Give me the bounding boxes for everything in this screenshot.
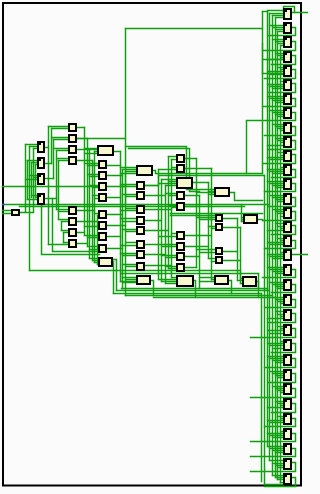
wire: [270, 345, 284, 347]
output wrap net: [265, 241, 296, 249]
bus line: [120, 152, 122, 282]
wire: [42, 204, 100, 255]
wire: [34, 177, 39, 179]
wire: [273, 284, 284, 286]
output wrap net: [269, 84, 296, 93]
wire: [172, 167, 178, 169]
subcircuit U83: [177, 192, 184, 199]
wire: [281, 341, 284, 343]
bus line: [58, 161, 60, 220]
input port net A: [3, 186, 100, 188]
wire: [281, 57, 284, 59]
wire: [98, 224, 100, 226]
wire: [273, 463, 284, 465]
wire: [270, 333, 284, 335]
subcircuit U33: [284, 474, 291, 484]
wire: [98, 215, 100, 217]
subcircuit U43: [38, 174, 44, 184]
wire: [276, 138, 284, 140]
wire: [159, 236, 178, 238]
wire: [172, 159, 178, 161]
wire: [145, 195, 166, 197]
wire: [185, 267, 197, 269]
bus line: [29, 147, 31, 271]
subcircuit U69: [99, 258, 112, 266]
wire: [278, 140, 284, 142]
wire: [90, 149, 98, 151]
wire: [212, 228, 216, 230]
wire: [281, 240, 284, 242]
subcircuit U82: [177, 178, 192, 188]
wire: [169, 268, 178, 270]
wire: [77, 232, 85, 234]
bundle net 5: [154, 297, 276, 299]
wire: [281, 45, 284, 47]
wire: [276, 375, 284, 377]
wire: [88, 165, 100, 167]
wire: [54, 148, 70, 150]
wire: [270, 159, 284, 161]
wire: [241, 283, 244, 285]
wire: [281, 167, 284, 169]
wire: [263, 59, 284, 61]
wire: [281, 81, 284, 83]
wire: [276, 41, 284, 43]
wire: [53, 199, 98, 252]
wire: [278, 288, 284, 290]
wire: [77, 160, 93, 162]
over-top hook net: [284, 7, 295, 13]
wire: [273, 88, 284, 90]
subcircuit U50: [69, 124, 76, 131]
subcircuit U75: [137, 227, 144, 234]
wire: [145, 265, 172, 267]
bus line: [56, 151, 58, 210]
wire: [57, 158, 70, 160]
wire: [278, 377, 284, 379]
wire: [281, 303, 284, 305]
wire: [77, 149, 90, 151]
wire: [200, 219, 216, 221]
subcircuit U72: [137, 192, 144, 199]
output wrap net: [265, 419, 296, 427]
wire: [276, 465, 284, 467]
wire: [273, 360, 284, 362]
subcircuit U3: [284, 37, 291, 47]
subcircuit U79: [137, 276, 150, 284]
feeder net: [246, 122, 248, 174]
wire: [126, 208, 138, 210]
wire: [85, 153, 98, 155]
wire: [263, 73, 284, 75]
wire: [85, 148, 98, 150]
wire: [93, 187, 100, 189]
bus line: [208, 183, 210, 259]
wire: [270, 448, 284, 450]
wire: [172, 233, 178, 235]
wire: [166, 266, 178, 268]
subcircuit U12: [284, 165, 291, 175]
subcircuit U53: [69, 157, 76, 164]
wire: [145, 220, 162, 222]
wire: [268, 96, 284, 98]
wire: [278, 152, 284, 154]
wire: [98, 264, 100, 266]
wire: [57, 150, 70, 152]
subcircuit U55: [69, 218, 76, 225]
wire: [126, 242, 138, 244]
wire: [52, 137, 70, 139]
output wrap net: [251, 434, 296, 442]
output wrap net: [265, 300, 296, 308]
pair net 1: [152, 171, 263, 174]
subcircuit U29: [284, 414, 291, 424]
output wrap net: [263, 99, 296, 107]
bus line: [87, 139, 89, 247]
subcircuit U74: [137, 217, 144, 224]
output wrap net: [272, 170, 296, 178]
band line 3: [171, 213, 263, 215]
bus line: [27, 161, 29, 200]
wire: [270, 256, 284, 258]
subcircuit U15: [284, 208, 291, 218]
wire: [268, 267, 284, 269]
input port net C: [3, 210, 12, 212]
wire: [93, 260, 100, 262]
wire: [270, 183, 284, 185]
subcircuit U14: [284, 194, 291, 204]
wire: [278, 43, 284, 45]
subcircuit U63: [99, 183, 106, 190]
wire: [268, 84, 284, 86]
wire: [270, 422, 284, 424]
subcircuit U85: [177, 232, 184, 239]
wire: [121, 281, 138, 283]
subcircuit U77: [137, 251, 144, 258]
wire: [276, 388, 284, 390]
output wrap net: [265, 359, 296, 368]
wire: [281, 155, 284, 157]
wire: [145, 244, 159, 246]
output wrap net: [272, 404, 296, 413]
wire: [200, 277, 215, 279]
M5 output: [258, 219, 263, 221]
wire: [121, 167, 137, 169]
wire: [273, 386, 284, 388]
bus line: [97, 216, 99, 265]
bus line: [51, 129, 53, 164]
wire: [212, 279, 215, 281]
wire: [276, 53, 284, 55]
subcircuit U28: [284, 399, 291, 409]
subcircuit U70: [137, 166, 152, 175]
output wrap net: [251, 329, 296, 338]
subcircuit U24: [284, 340, 291, 350]
wire: [278, 201, 284, 203]
wire: [121, 184, 138, 186]
subcircuit U94: [216, 257, 222, 263]
wire: [107, 186, 126, 188]
wire: [192, 182, 209, 184]
wire: [270, 435, 284, 437]
wire: [166, 185, 177, 187]
bus line: [25, 145, 27, 212]
wire: [278, 128, 284, 130]
wire: [270, 358, 284, 360]
bus line: [122, 170, 124, 289]
subcircuit U66: [99, 222, 106, 229]
M4b output: [229, 281, 232, 294]
wire: [278, 314, 284, 316]
wire: [263, 11, 268, 13]
right bus f: [275, 18, 277, 478]
subcircuit U52: [69, 146, 76, 153]
subcircuit U90: [215, 188, 229, 196]
subcircuit U19: [284, 265, 291, 275]
wire: [276, 299, 284, 301]
M5b output: [257, 282, 259, 298]
subcircuit U73: [137, 206, 144, 213]
output wrap net: [272, 56, 296, 65]
wire: [90, 258, 100, 260]
wire: [270, 86, 284, 88]
wire: [281, 142, 284, 144]
subcircuit U86: [177, 243, 184, 250]
wire: [123, 194, 138, 196]
wire: [185, 206, 197, 208]
subcircuit U78: [137, 263, 144, 270]
wire: [162, 179, 177, 181]
wire: [26, 144, 39, 146]
wire: [278, 467, 284, 469]
wire: [276, 29, 284, 31]
bus line: [171, 160, 173, 278]
wire: [107, 165, 121, 167]
wire: [273, 39, 284, 41]
wire: [172, 277, 177, 279]
wire: [281, 431, 284, 433]
wire: [268, 254, 284, 256]
wire: [197, 192, 215, 194]
wire: [281, 216, 284, 218]
bus line: [211, 169, 213, 280]
output wrap net: [269, 374, 296, 383]
wire: [145, 254, 166, 256]
subcircuit U21: [284, 295, 291, 305]
wire: [59, 211, 70, 213]
wire: [200, 252, 216, 254]
subcircuit U84: [177, 203, 184, 210]
subcircuit U67: [99, 233, 106, 240]
wire: [49, 126, 70, 128]
output wrap net: [265, 70, 296, 79]
wire: [32, 195, 39, 197]
subcircuit U76: [137, 241, 144, 248]
wire: [270, 244, 284, 246]
wire: [278, 416, 284, 418]
wire: [54, 139, 70, 141]
wire: [273, 209, 284, 211]
wire: [238, 280, 244, 282]
bundle net 4: [126, 295, 273, 297]
wire: [281, 328, 284, 330]
subcircuit U62: [99, 172, 106, 179]
subcircuit U54: [69, 207, 76, 214]
wire: [45, 178, 54, 180]
bus line: [161, 180, 163, 282]
wire: [107, 197, 121, 199]
wire: [200, 281, 215, 283]
subcircuit U80: [177, 155, 184, 162]
wire: [113, 151, 121, 153]
wire: [34, 148, 39, 150]
output wrap net: [269, 28, 296, 36]
wire: [85, 235, 100, 237]
bus line: [158, 170, 160, 280]
wire: [62, 230, 70, 232]
wire: [107, 248, 123, 250]
wire: [281, 130, 284, 132]
wire: [270, 282, 284, 284]
output wrap net: [269, 198, 296, 207]
wire: [121, 210, 138, 212]
subcircuit U44: [38, 194, 44, 204]
subcircuit U11: [284, 151, 291, 161]
wire: [273, 258, 284, 260]
output wrap net: [247, 113, 296, 121]
right bus b: [265, 176, 284, 485]
output wrap net: [263, 212, 296, 221]
right bus g: [277, 32, 279, 480]
wire: [268, 446, 284, 448]
wire: [126, 266, 138, 268]
wire: [95, 262, 100, 264]
wire: [126, 279, 138, 281]
subcircuit U71: [137, 182, 144, 189]
wire: [278, 390, 284, 392]
wire: [26, 179, 39, 181]
wire: [270, 195, 284, 197]
subcircuit U68: [99, 245, 106, 252]
wire: [241, 205, 243, 222]
cascade net 1: [126, 147, 197, 190]
wire: [45, 147, 49, 149]
output wrap net: [272, 344, 296, 353]
wire: [77, 138, 88, 140]
wire: [278, 213, 284, 215]
wire: [90, 176, 100, 178]
wire: [107, 175, 123, 177]
wire: [209, 194, 215, 196]
wire: [169, 156, 178, 158]
M1b output 1: [113, 262, 114, 294]
wire: [276, 211, 284, 213]
wire: [241, 278, 244, 280]
wire: [242, 219, 245, 221]
wire: [123, 264, 138, 266]
wire: [268, 145, 284, 147]
wire: [276, 452, 284, 454]
output wrap net: [269, 314, 296, 323]
subcircuit U93: [216, 248, 222, 254]
wire: [121, 253, 138, 255]
subcircuit U60: [98, 146, 113, 155]
wire: [278, 67, 284, 69]
subcircuit U31: [284, 444, 291, 454]
unconnected pin (blue): [2, 204, 5, 206]
wire: [95, 213, 100, 215]
subcircuit U16: [284, 222, 291, 232]
subcircuit U6: [284, 80, 291, 90]
wire: [276, 286, 284, 288]
input port net B (band line 1): [3, 204, 270, 206]
wire: [126, 196, 138, 198]
wire: [159, 244, 178, 246]
wire: [145, 209, 172, 211]
wire: [278, 116, 284, 118]
subcircuit U27: [284, 384, 291, 394]
wire: [242, 217, 245, 219]
wire: [121, 173, 137, 175]
bus line: [63, 233, 65, 243]
wire: [197, 249, 216, 251]
wire: [278, 238, 284, 240]
wire: [273, 297, 284, 299]
subcircuit U23: [284, 325, 291, 335]
bus line: [33, 149, 35, 205]
wire: [268, 318, 284, 320]
wire: [145, 185, 159, 187]
wire: [197, 189, 215, 191]
wire: [32, 162, 39, 164]
wire: [162, 246, 178, 248]
wire: [90, 185, 100, 187]
wire: [123, 169, 137, 171]
subcircuit U5: [284, 66, 291, 76]
wire: [162, 255, 178, 257]
wire: [281, 69, 284, 71]
wire: [273, 15, 284, 17]
subcircuit U51: [69, 135, 76, 142]
wire: [223, 227, 241, 229]
wire: [185, 256, 200, 258]
wire: [62, 221, 70, 223]
subcircuit U4: [284, 52, 291, 62]
wire: [159, 279, 177, 281]
band line 2: [20, 206, 245, 208]
long net y270: [30, 271, 241, 278]
wire: [166, 257, 178, 259]
output wrap net: [263, 270, 296, 278]
wire: [123, 255, 138, 257]
wire: [95, 151, 98, 153]
wire: [107, 236, 121, 238]
subcircuit U18: [284, 250, 291, 260]
wire: [273, 373, 284, 375]
input port net D: [3, 213, 12, 215]
subcircuit U95: [215, 276, 228, 284]
wire: [107, 225, 126, 227]
wire: [270, 110, 284, 112]
wire: [162, 281, 177, 283]
wire: [123, 282, 138, 284]
wire: [278, 31, 284, 33]
wire: [197, 217, 216, 219]
wire: [185, 195, 200, 197]
wire: [278, 479, 284, 481]
cascade net 2: [129, 149, 200, 192]
right bus a: [262, 12, 264, 174]
